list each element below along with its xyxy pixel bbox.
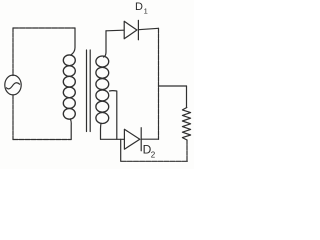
wire left vertical upper — [12, 28, 14, 76]
wire secondary top lead — [104, 31, 107, 57]
wire resistor top lead — [186, 86, 188, 108]
resistor RL — [182, 108, 190, 141]
diode D1 — [124, 20, 138, 40]
wire D2 anode — [101, 138, 125, 140]
inductor secondary winding — [96, 56, 109, 124]
wire top of primary loop — [13, 27, 75, 29]
diode D2 — [124, 128, 141, 151]
wire primary bottom lead — [70, 120, 73, 140]
wire T-branch to resistor — [159, 85, 187, 87]
wire right vertical (common cathode) — [158, 28, 160, 139]
wire bottom of primary loop — [13, 139, 71, 141]
wire D2 cathode to right vertical — [141, 138, 158, 140]
wire secondary bottom lead — [100, 123, 103, 139]
transformer core — [87, 50, 91, 132]
AC source — [5, 75, 21, 95]
wire primary top lead — [71, 28, 75, 55]
wire D1 cathode to top right corner — [138, 28, 158, 29]
svg-text:D: D — [135, 1, 143, 13]
wire bottom rail — [121, 160, 188, 162]
wire resistor bottom lead — [186, 140, 188, 161]
center tap wire — [110, 91, 117, 140]
wire from secondary top to D1 anode — [106, 29, 124, 32]
wire left vertical lower — [12, 95, 14, 140]
inductor primary winding — [63, 55, 75, 119]
svg-text:1: 1 — [144, 7, 148, 16]
svg-text:2: 2 — [151, 151, 156, 160]
wire rail up to D2 anode wire — [120, 139, 122, 161]
